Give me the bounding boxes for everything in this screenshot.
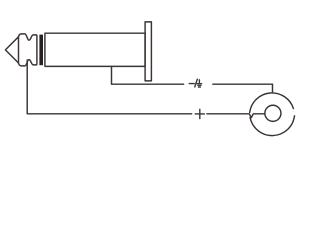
insulator ring (black band): [39, 35, 43, 66]
wire: plus segment right of label with notch: [207, 114, 265, 118]
piezo outer disc bottom arc: [250, 116, 294, 136]
plug tip bulge and groove profile: [19, 34, 37, 66]
label slash: [195, 79, 198, 87]
wire: tip to plus, vertical+horizontal left segment: [27, 60, 191, 114]
wire: sleeve to ground, vertical+horizontal left segment: [112, 66, 184, 84]
label ground symbol: [198, 80, 200, 83]
piezo outer disc top arc: [250, 93, 294, 112]
sleeve barrel: [45, 33, 145, 66]
plug tip cone: [5, 37, 18, 63]
piezo inner disc: [265, 105, 281, 121]
rear flange: [145, 22, 151, 81]
label plus: [195, 113, 204, 115]
label minus: [189, 79, 204, 118]
wire: ground segment right of label: [213, 84, 273, 93]
